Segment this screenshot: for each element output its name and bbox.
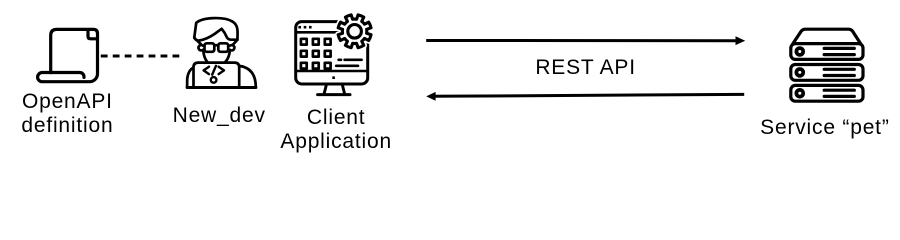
gear hub	[348, 25, 362, 39]
stand base	[318, 93, 350, 96]
app grid 3x3	[301, 39, 331, 69]
laptop lid	[194, 63, 240, 88]
right ear	[230, 45, 234, 50]
label: Client Application	[280, 106, 392, 154]
client application icon (monitor with app grid and gear)	[292, 12, 376, 100]
code chevron left	[204, 67, 209, 74]
server unit 2	[791, 65, 863, 81]
power dot	[332, 76, 335, 79]
server unit 1	[791, 44, 863, 60]
right shoulder	[240, 66, 256, 87]
left ear	[198, 45, 202, 50]
unit 2 power button	[795, 67, 806, 78]
unit 2 vent lines	[824, 68, 854, 71]
label: REST API	[535, 56, 636, 80]
desk line	[187, 86, 256, 89]
left temple	[195, 38, 202, 44]
unit 1 vent lines	[824, 47, 854, 50]
label: Service "pet"	[760, 116, 889, 140]
chin	[203, 52, 229, 66]
title bar dots	[298, 26, 311, 29]
server lid (top trapezoid)	[793, 29, 861, 43]
unit 3 vent lines	[824, 89, 854, 92]
small circle on laptop	[211, 77, 217, 83]
stand legs	[324, 86, 344, 94]
left shoulder	[187, 68, 193, 87]
label: New_dev	[173, 104, 266, 128]
scroll top curl fold	[88, 30, 97, 39]
right temple	[233, 40, 237, 44]
screen bottom separator	[296, 70, 368, 73]
hair fringe	[194, 29, 237, 41]
monitor frame	[296, 22, 368, 84]
glasses left lens	[205, 43, 215, 52]
gear halo	[338, 15, 371, 48]
text lines	[336, 60, 361, 66]
glasses right lens	[218, 43, 228, 52]
server unit 3	[791, 85, 863, 101]
unit 1 power button	[795, 46, 806, 57]
scroll icon (OpenAPI definition document)	[30, 20, 106, 86]
request arrow (Client to Service)	[420, 30, 760, 50]
title bar separator	[296, 31, 368, 34]
label: OpenAPI definition	[21, 90, 113, 138]
gear outline	[338, 15, 371, 48]
glasses bridge	[214, 44, 218, 47]
hair outer outline	[194, 18, 237, 40]
dashed connector wire between scroll and developer	[98, 50, 184, 62]
code chevron right	[219, 67, 224, 74]
server stack icon Service "pet"	[788, 25, 868, 105]
unit 3 power button	[795, 88, 806, 99]
response arrow (Service to Client)	[420, 85, 760, 105]
scroll sheet outline	[38, 29, 98, 81]
code slash	[212, 66, 216, 75]
developer icon New_dev (person with glasses behind laptop)	[185, 8, 259, 98]
